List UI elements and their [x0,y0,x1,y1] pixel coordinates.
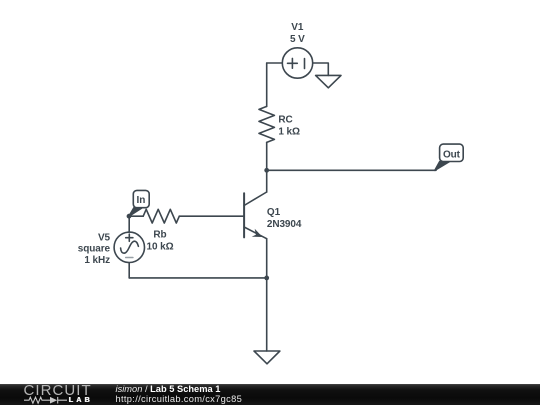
svg-text:V1: V1 [291,22,304,33]
wire bottom horizontal to V5 [129,277,267,279]
source V5 [114,232,144,262]
logo CircuitLab [24,383,92,398]
node In junction [127,214,132,219]
svg-text:Out: Out [443,149,461,160]
resistor Rb [143,209,179,223]
svg-text:5 V: 5 V [290,34,305,45]
ground top [316,75,341,87]
voltage source V1 [282,48,312,78]
svg-text:1 kΩ: 1 kΩ [278,127,300,138]
wire emitter vertical [266,239,268,278]
label RC value [278,115,300,138]
wire RC to collector node [266,142,268,170]
svg-text:square: square [78,244,111,255]
wire In node to Rb [129,215,143,217]
wire V1 to RC [266,63,268,106]
flag Out [435,144,463,170]
svg-text:1 kHz: 1 kHz [84,255,110,266]
svg-text:Q1: Q1 [267,207,281,218]
wire to Out flag [267,169,436,171]
transistor Q1 [244,192,267,239]
wire emitter to ground [266,278,268,351]
ground bottom [254,351,280,364]
node emitter junction [264,276,269,281]
resistor RC [259,106,274,142]
svg-text:V5: V5 [98,232,111,243]
label Rb value [147,229,174,252]
wire Rb to base [179,215,244,217]
svg-text:2N3904: 2N3904 [267,219,302,230]
flag In [129,190,149,216]
footer text line 2 [116,394,243,404]
footer text line 1 [116,384,221,394]
footer bar [0,384,540,405]
wire V5 bottom lead [128,263,130,278]
label V5 value [78,232,111,266]
wire V1 right lead [313,63,329,75]
svg-text:In: In [137,195,146,206]
wire collector vertical [266,170,268,192]
svg-text:RC: RC [278,115,292,126]
wire V5 top lead [128,216,130,232]
label Q1 value [267,207,302,230]
wire V1 left lead [267,62,283,64]
svg-text:10 kΩ: 10 kΩ [147,242,174,253]
node collector junction [264,168,269,173]
label V1 value [290,22,305,45]
svg-text:Rb: Rb [153,229,166,240]
